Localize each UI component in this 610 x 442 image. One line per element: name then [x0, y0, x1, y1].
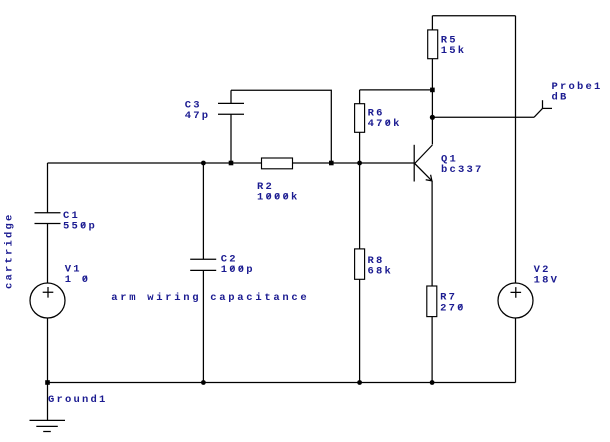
probe Probe1: [534, 100, 552, 117]
svg-text:Ground1: Ground1: [48, 394, 108, 406]
wire left column to C1: [47, 163, 49, 213]
wire ground stub: [47, 383, 49, 421]
capacitor C1: [35, 213, 61, 224]
label Q1 bc337: [441, 153, 484, 176]
label R6 470k: [368, 108, 402, 131]
label R7 270: [440, 292, 466, 315]
source V1: [30, 283, 65, 318]
label V2 18V: [534, 264, 560, 287]
ground: [30, 420, 66, 431]
resistor R8: [355, 249, 365, 279]
svg-text:arm wiring capacitance: arm wiring capacitance: [111, 292, 309, 304]
svg-text:68k: 68k: [368, 266, 394, 278]
wire R8 to ground rail: [359, 279, 361, 382]
slashed zero marks: [81, 120, 462, 309]
svg-text:1000k: 1000k: [257, 192, 300, 204]
node input/C3: [229, 161, 234, 166]
wire R6 to collector column: [360, 89, 433, 91]
resistor R6: [355, 104, 365, 133]
node input/C2: [201, 161, 206, 166]
label C2 100p: [221, 253, 255, 276]
wire R6 bottom lead: [359, 132, 361, 163]
node R7 ground: [430, 380, 435, 385]
node C2 ground: [201, 380, 206, 385]
node R8 ground: [357, 380, 362, 385]
svg-text:15k: 15k: [441, 45, 467, 57]
capacitor C2: [190, 259, 216, 270]
wire main input node horizontal: [48, 162, 262, 164]
wire emitter to R7: [431, 181, 433, 286]
wire top supply rail: [432, 15, 515, 17]
node bottom-left junction: [45, 380, 50, 385]
node base/C3 loop: [329, 161, 334, 166]
svg-text:bc337: bc337: [441, 164, 484, 176]
capacitor C3: [218, 103, 244, 114]
resistor R7: [427, 286, 437, 317]
wire R5 top lead: [431, 16, 433, 30]
svg-text:47p: 47p: [185, 110, 211, 122]
svg-text:18V: 18V: [534, 275, 560, 287]
svg-text:550p: 550p: [63, 221, 97, 233]
label R5 15k: [441, 34, 467, 57]
wire probe: [432, 116, 534, 118]
node collector/R6: [430, 88, 435, 93]
wire V1 to ground rail: [47, 318, 49, 383]
svg-text:100p: 100p: [221, 264, 255, 276]
label R8 68k: [368, 255, 394, 278]
resistor R2: [262, 158, 293, 169]
source V2: [498, 283, 533, 318]
wire R6 top lead: [359, 90, 361, 104]
wire V2 to ground rail: [515, 318, 517, 383]
label C1 550p: [63, 210, 97, 233]
node collector/probe: [430, 115, 435, 120]
wire V2 supply column: [515, 16, 517, 283]
svg-text:470k: 470k: [368, 118, 402, 130]
wire C3 lower lead: [230, 114, 232, 163]
label V1 1 0: [65, 264, 91, 287]
wire C3 top loop: [231, 90, 331, 163]
resistor R5: [428, 30, 438, 59]
wire base node horizontal: [293, 162, 415, 164]
node base/R6: [357, 161, 362, 166]
wire C2 branch upper: [202, 163, 204, 259]
svg-text:cartridge: cartridge: [4, 212, 16, 289]
wire ground rail: [48, 382, 516, 384]
svg-text:dB: dB: [552, 92, 569, 104]
label C3 47p: [185, 99, 211, 122]
wire R8 top lead: [359, 163, 361, 249]
label Probe1 dB: [552, 81, 603, 104]
wire C1 to V1: [47, 224, 49, 284]
wire C2 to ground rail: [202, 270, 204, 382]
transistor Q1: [414, 145, 432, 182]
label R2 1000k: [257, 181, 300, 204]
wire R5 to collector: [431, 59, 433, 145]
wire R7 to ground rail: [431, 317, 433, 383]
wire C3 upper lead: [230, 90, 232, 103]
